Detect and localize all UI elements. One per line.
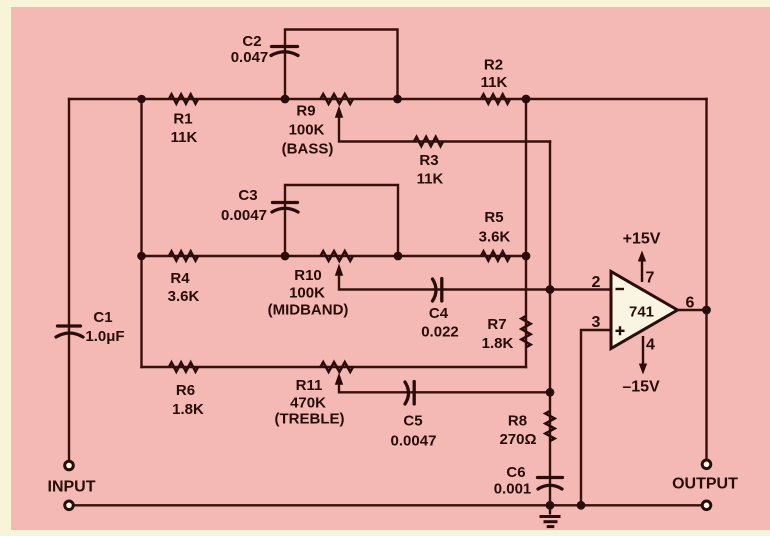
svg-text:–15V: –15V bbox=[622, 379, 660, 396]
capacitor C2 plates bbox=[271, 47, 298, 56]
wire treble row bbox=[142, 366, 527, 368]
svg-text:R5: R5 bbox=[484, 209, 503, 226]
capacitor C6 plates bbox=[538, 478, 563, 490]
capacitor C1 plates bbox=[56, 326, 83, 337]
label R8 value bbox=[499, 413, 536, 449]
label C1 value bbox=[85, 309, 124, 345]
output terminal upper bbox=[702, 460, 711, 469]
label R10 value MIDBAND bbox=[268, 267, 349, 319]
pin label 3 bbox=[592, 314, 601, 331]
svg-text:C5: C5 bbox=[403, 413, 422, 430]
input terminal lower bbox=[65, 501, 74, 510]
label C3 value bbox=[221, 187, 267, 224]
wire treble wiper / C5 row bbox=[339, 385, 550, 392]
wire midband row bbox=[142, 255, 527, 257]
junction dot C2 right on bass row bbox=[393, 95, 402, 104]
resistor R3 bbox=[414, 137, 443, 146]
svg-text:100K: 100K bbox=[289, 285, 325, 302]
power -15V arrow pin4 bbox=[639, 336, 647, 375]
label R7 value bbox=[482, 316, 514, 352]
resistor R4 bbox=[169, 251, 198, 260]
resistor R7 vertical bbox=[521, 316, 530, 347]
wire inverting node vertical bbox=[549, 142, 551, 506]
svg-text:OUTPUT: OUTPUT bbox=[672, 476, 738, 493]
wire output feedback vertical bbox=[525, 99, 527, 367]
capacitor C5 plates bbox=[405, 382, 414, 405]
svg-text:C4: C4 bbox=[429, 305, 449, 322]
svg-text:2: 2 bbox=[592, 274, 601, 291]
junction dot bass input node bbox=[137, 95, 146, 104]
input terminal upper bbox=[65, 461, 74, 470]
svg-text:1.8K: 1.8K bbox=[482, 335, 514, 352]
label R1 value bbox=[171, 111, 198, 147]
svg-text:11K: 11K bbox=[417, 171, 444, 188]
svg-text:R6: R6 bbox=[176, 382, 195, 399]
label R6 value bbox=[172, 382, 204, 418]
svg-text:470K: 470K bbox=[290, 395, 326, 412]
pin label 2 bbox=[592, 274, 601, 291]
junction dot ground node R8 bbox=[546, 501, 555, 510]
svg-text:0.022: 0.022 bbox=[421, 324, 459, 341]
wire bass wiper to R3 row bbox=[339, 117, 550, 142]
op-amp U1 741 triangle bbox=[611, 272, 678, 349]
svg-text:100K: 100K bbox=[289, 122, 325, 139]
label C2 value bbox=[231, 33, 269, 66]
svg-text:741: 741 bbox=[629, 304, 654, 321]
svg-text:(BASS): (BASS) bbox=[282, 141, 334, 158]
label R3 value bbox=[417, 152, 444, 188]
svg-text:R7: R7 bbox=[487, 316, 506, 333]
svg-text:0.0047: 0.0047 bbox=[391, 433, 437, 450]
wire input bus vertical bbox=[140, 99, 142, 367]
svg-text:R10: R10 bbox=[294, 267, 322, 284]
wire C2 loop bbox=[285, 30, 398, 100]
label R4 value bbox=[168, 270, 200, 305]
pin label 6 bbox=[686, 295, 695, 312]
svg-text:R4: R4 bbox=[170, 270, 190, 287]
svg-text:4: 4 bbox=[646, 337, 655, 354]
wire pin3 to ground bus bbox=[581, 330, 611, 505]
wire C3 loop bbox=[285, 185, 398, 256]
svg-text:(TREBLE): (TREBLE) bbox=[275, 411, 345, 428]
svg-text:0.001: 0.001 bbox=[494, 481, 532, 498]
svg-text:C3: C3 bbox=[238, 187, 257, 204]
svg-text:11K: 11K bbox=[171, 129, 198, 146]
junction dot midband input node bbox=[137, 252, 146, 261]
potentiometer R11 wiper arrow bbox=[335, 373, 343, 385]
wire input left vertical bbox=[68, 99, 70, 461]
resistor R6 bbox=[169, 362, 198, 371]
label R2 value bbox=[481, 57, 508, 92]
junction dot output node pin6 bbox=[702, 306, 711, 315]
resistor R1 bbox=[169, 94, 198, 103]
potentiometer R11 element bbox=[321, 362, 353, 372]
label R11 value TREBLE bbox=[275, 377, 345, 428]
svg-text:R9: R9 bbox=[296, 103, 315, 120]
power label +15V bbox=[623, 231, 661, 248]
svg-text:C1: C1 bbox=[93, 309, 112, 326]
label C5 value bbox=[391, 413, 437, 450]
junction dot C2 left on bass row bbox=[281, 95, 290, 104]
svg-text:R11: R11 bbox=[296, 377, 323, 394]
label C6 value bbox=[494, 464, 532, 498]
svg-text:C2: C2 bbox=[242, 33, 261, 50]
junction dot ground node pin3 bbox=[577, 501, 586, 510]
wire midband wiper / C4 / pin2 row bbox=[339, 275, 611, 290]
junction dot R2 output node bbox=[522, 95, 531, 104]
node label INPUT bbox=[48, 479, 96, 496]
power +15V arrow pin7 bbox=[638, 251, 646, 283]
junction dot C3 left on midband row bbox=[281, 252, 290, 261]
label C4 value bbox=[421, 305, 459, 341]
pin label 4 bbox=[646, 337, 655, 354]
resistor R5 bbox=[481, 251, 510, 260]
svg-text:0.0047: 0.0047 bbox=[221, 207, 267, 224]
junction dot R5 output node bbox=[522, 252, 531, 261]
resistor R8 vertical bbox=[545, 411, 554, 441]
svg-text:3: 3 bbox=[592, 314, 601, 331]
op-amp U1 741 label bbox=[629, 304, 654, 321]
wire bottom ground row bbox=[69, 504, 707, 506]
svg-text:11K: 11K bbox=[481, 74, 508, 91]
ground symbol bbox=[540, 505, 561, 526]
svg-text:INPUT: INPUT bbox=[48, 479, 96, 496]
junction dot C5 treble node bbox=[546, 388, 555, 397]
output terminal lower bbox=[702, 501, 711, 510]
junction dot inverting input node bbox=[546, 285, 555, 294]
svg-text:1.8K: 1.8K bbox=[172, 401, 204, 418]
op-amp U1 minus sign bbox=[616, 288, 625, 290]
svg-text:7: 7 bbox=[646, 270, 655, 287]
svg-text:1.0μF: 1.0μF bbox=[85, 328, 124, 345]
wire bass row bbox=[142, 98, 707, 100]
potentiometer R10 wiper arrow bbox=[335, 264, 343, 276]
label R5 value bbox=[479, 209, 511, 246]
capacitor C3 plates bbox=[272, 203, 298, 213]
label R9 value BASS bbox=[282, 103, 334, 158]
potentiometer R10 element bbox=[321, 251, 353, 261]
svg-text:(MIDBAND): (MIDBAND) bbox=[268, 302, 349, 319]
svg-text:3.6K: 3.6K bbox=[479, 229, 511, 246]
svg-text:R1: R1 bbox=[173, 111, 192, 128]
svg-text:0.047: 0.047 bbox=[231, 49, 269, 66]
wire output right vertical bbox=[705, 99, 707, 460]
capacitor C4 plates bbox=[433, 279, 442, 302]
svg-text:R8: R8 bbox=[508, 413, 527, 430]
svg-text:270Ω: 270Ω bbox=[499, 431, 536, 448]
resistor R2 bbox=[481, 94, 510, 103]
svg-text:+15V: +15V bbox=[623, 231, 661, 248]
svg-text:R3: R3 bbox=[419, 152, 438, 169]
wire top-left horizontal bbox=[69, 98, 142, 100]
svg-text:3.6K: 3.6K bbox=[168, 288, 200, 305]
svg-text:C6: C6 bbox=[506, 464, 525, 481]
node label OUTPUT bbox=[672, 476, 738, 493]
svg-text:6: 6 bbox=[686, 295, 695, 312]
pin label 7 bbox=[646, 270, 655, 287]
potentiometer R9 element bbox=[321, 94, 353, 104]
op-amp U1 plus sign bbox=[616, 326, 625, 335]
potentiometer R9 wiper arrow bbox=[335, 106, 343, 118]
svg-text:R2: R2 bbox=[484, 57, 503, 74]
power label -15V bbox=[622, 379, 660, 396]
junction dot C3 right on midband row bbox=[394, 252, 403, 261]
wire pin6 output bbox=[678, 309, 707, 311]
